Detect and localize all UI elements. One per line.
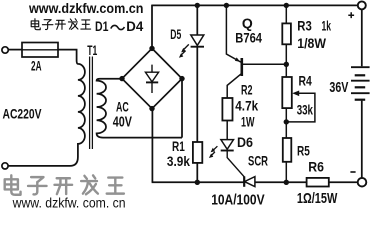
potentiometer R4 body [282, 77, 292, 108]
node: bridge right [179, 76, 184, 81]
wire: bottom rail mid segment [255, 181, 307, 183]
wire: top rail [152, 4, 358, 6]
node: bottom rail R5 [284, 180, 289, 185]
svg-text:D1: D1 [95, 19, 109, 34]
wire: D6 to SCR gate [227, 151, 244, 177]
svg-text:R3: R3 [297, 18, 312, 34]
node: bridge bottom [149, 106, 154, 111]
transistor Q base wire to divider [242, 63, 286, 65]
SCR symbol [244, 176, 255, 186]
wire: bridge right corner down to secondary bottom [181, 79, 183, 138]
svg-text:R2: R2 [241, 82, 253, 98]
svg-text:B764: B764 [235, 30, 262, 46]
watermark 电子开发王 (gray, bottom) [5, 175, 124, 194]
bridge rectifier D1-D4 diamond [122, 48, 182, 108]
transistor Q collector wire [227, 73, 242, 98]
wire: R4 to R5 [285, 108, 287, 138]
terminal: output + circle [358, 1, 366, 9]
wire: right rail top (terminal to battery) [361, 9, 363, 66]
transformer T1 core [90, 57, 93, 150]
svg-text:www. dzkfw. com. cn: www. dzkfw. com. cn [12, 196, 126, 211]
svg-text:D6: D6 [237, 134, 253, 150]
wire: R5 to bottom rail [285, 162, 287, 183]
svg-text:R1: R1 [172, 138, 185, 154]
resistor R5 [283, 138, 292, 162]
node: top rail Q emitter [224, 3, 229, 8]
wire: right rail bottom (battery to terminal) [361, 101, 363, 178]
transistor Q emitter wire from top rail [226, 5, 241, 62]
node: bridge left [119, 76, 124, 81]
resistor R3 with leads [285, 5, 287, 77]
svg-text:1/8W: 1/8W [297, 35, 326, 51]
node: bottom rail R1 [195, 180, 200, 185]
resistor R2 [222, 98, 232, 121]
R4 wiper arrow and loop [288, 91, 315, 122]
bridge inner diode symbol [145, 65, 158, 93]
resistor R1 [193, 142, 202, 163]
wire: AC input top lead [8, 49, 22, 51]
svg-text:40V: 40V [113, 115, 132, 131]
terminal: AC input top circle [2, 47, 8, 53]
LED D6 symbol [209, 140, 234, 158]
wire: bottom rail left segment [152, 181, 245, 183]
transformer T1 secondary winding with leads [97, 79, 182, 138]
svg-text:AC: AC [116, 99, 129, 115]
minus sign at output terminal [350, 171, 355, 173]
svg-text:SCR: SCR [248, 153, 268, 169]
svg-text:www.dzkfw.com.cn: www.dzkfw.com.cn [28, 1, 143, 16]
wire: R1 to bottom rail [196, 163, 198, 182]
wire: R2 to D6 [226, 121, 228, 140]
svg-text:2A: 2A [31, 57, 42, 73]
resistor R6 [307, 178, 329, 187]
wire: bridge bottom down to bottom rail [151, 109, 153, 183]
node: top rail D5 [195, 3, 200, 8]
wire: fuse to transformer primary + primary winding + bottom lead to AC terminal [8, 50, 85, 166]
fuse 2A [22, 43, 58, 58]
LED D5 symbol [179, 35, 204, 58]
svg-text:T1: T1 [87, 42, 97, 58]
svg-text:D4: D4 [126, 19, 143, 34]
svg-text:AC220V: AC220V [3, 105, 42, 121]
node: base divider [284, 62, 289, 67]
svg-text:D5: D5 [170, 26, 181, 42]
svg-text:36V: 36V [329, 79, 348, 96]
transistor Q emitter arrow [235, 57, 240, 61]
wire: bottom rail right segment [329, 181, 357, 183]
svg-text:4.7k: 4.7k [235, 97, 258, 113]
svg-text:1Ω/15W: 1Ω/15W [297, 190, 338, 207]
node: top rail R3 [284, 3, 289, 8]
wire: D5/R1 branch upper [196, 5, 198, 35]
watermark 电子开发王 (black, top) [31, 19, 90, 30]
svg-text:1k: 1k [322, 18, 332, 34]
svg-text:Q: Q [242, 15, 253, 31]
svg-text:1W: 1W [241, 113, 255, 129]
svg-text:3.9k: 3.9k [167, 153, 190, 169]
terminal: output - circle [358, 178, 367, 187]
svg-text:R6: R6 [308, 159, 324, 175]
svg-text:10A/100V: 10A/100V [211, 191, 264, 208]
svg-text:33k: 33k [297, 102, 313, 118]
svg-text:R5: R5 [297, 143, 310, 159]
node: R4 bottom [284, 119, 289, 124]
svg-text:R4: R4 [299, 72, 312, 88]
transistor Q base bar [241, 58, 244, 76]
wire: D5 to R1 [196, 47, 198, 142]
terminal: AC input bottom circle [2, 163, 8, 169]
battery 36V [351, 67, 370, 100]
plus sign at output terminal [348, 12, 354, 18]
node: bridge top [149, 46, 154, 51]
wire: top rail down to bridge top [151, 5, 153, 49]
